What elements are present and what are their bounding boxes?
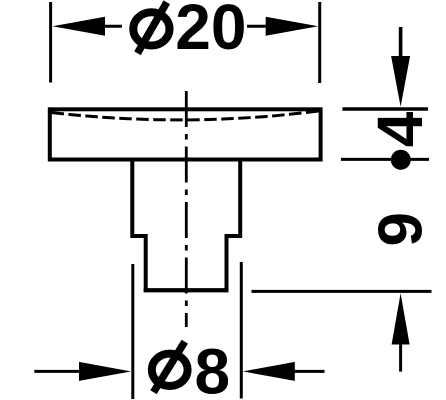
svg-text:4: 4 (364, 111, 436, 147)
dim 4 bottom extension line (341, 158, 429, 161)
dim Ø20 right arrow (247, 17, 318, 36)
dim Ø8 label diameter symbol (152, 342, 188, 393)
dim Ø20 right extension line (318, 2, 321, 83)
dashed concave top face (52, 111, 319, 120)
centerline (185, 91, 188, 327)
dim Ø8 left extension line (131, 264, 134, 399)
dim 4 down arrow (391, 27, 410, 107)
dim Ø20 left extension line (49, 2, 52, 83)
dim Ø20 label diameter symbol (133, 2, 169, 53)
knob head outline (50, 109, 321, 159)
dim Ø8 right extension line (240, 262, 243, 399)
dim 4 bullet terminator (391, 150, 411, 170)
dim Ø8 left arrow (34, 362, 131, 381)
dim 4 top extension line (342, 107, 428, 110)
stem bottom edge (144, 288, 229, 292)
dim Ø8 right arrow (243, 362, 325, 381)
dim 9 bottom extension line (252, 290, 432, 293)
svg-text:20: 20 (175, 0, 246, 63)
knob stem step profile (132, 161, 240, 290)
svg-text:9: 9 (367, 212, 436, 246)
dim Ø20 left arrow (53, 17, 123, 36)
dim 9 up arrow (392, 293, 410, 371)
svg-text:8: 8 (195, 336, 231, 400)
